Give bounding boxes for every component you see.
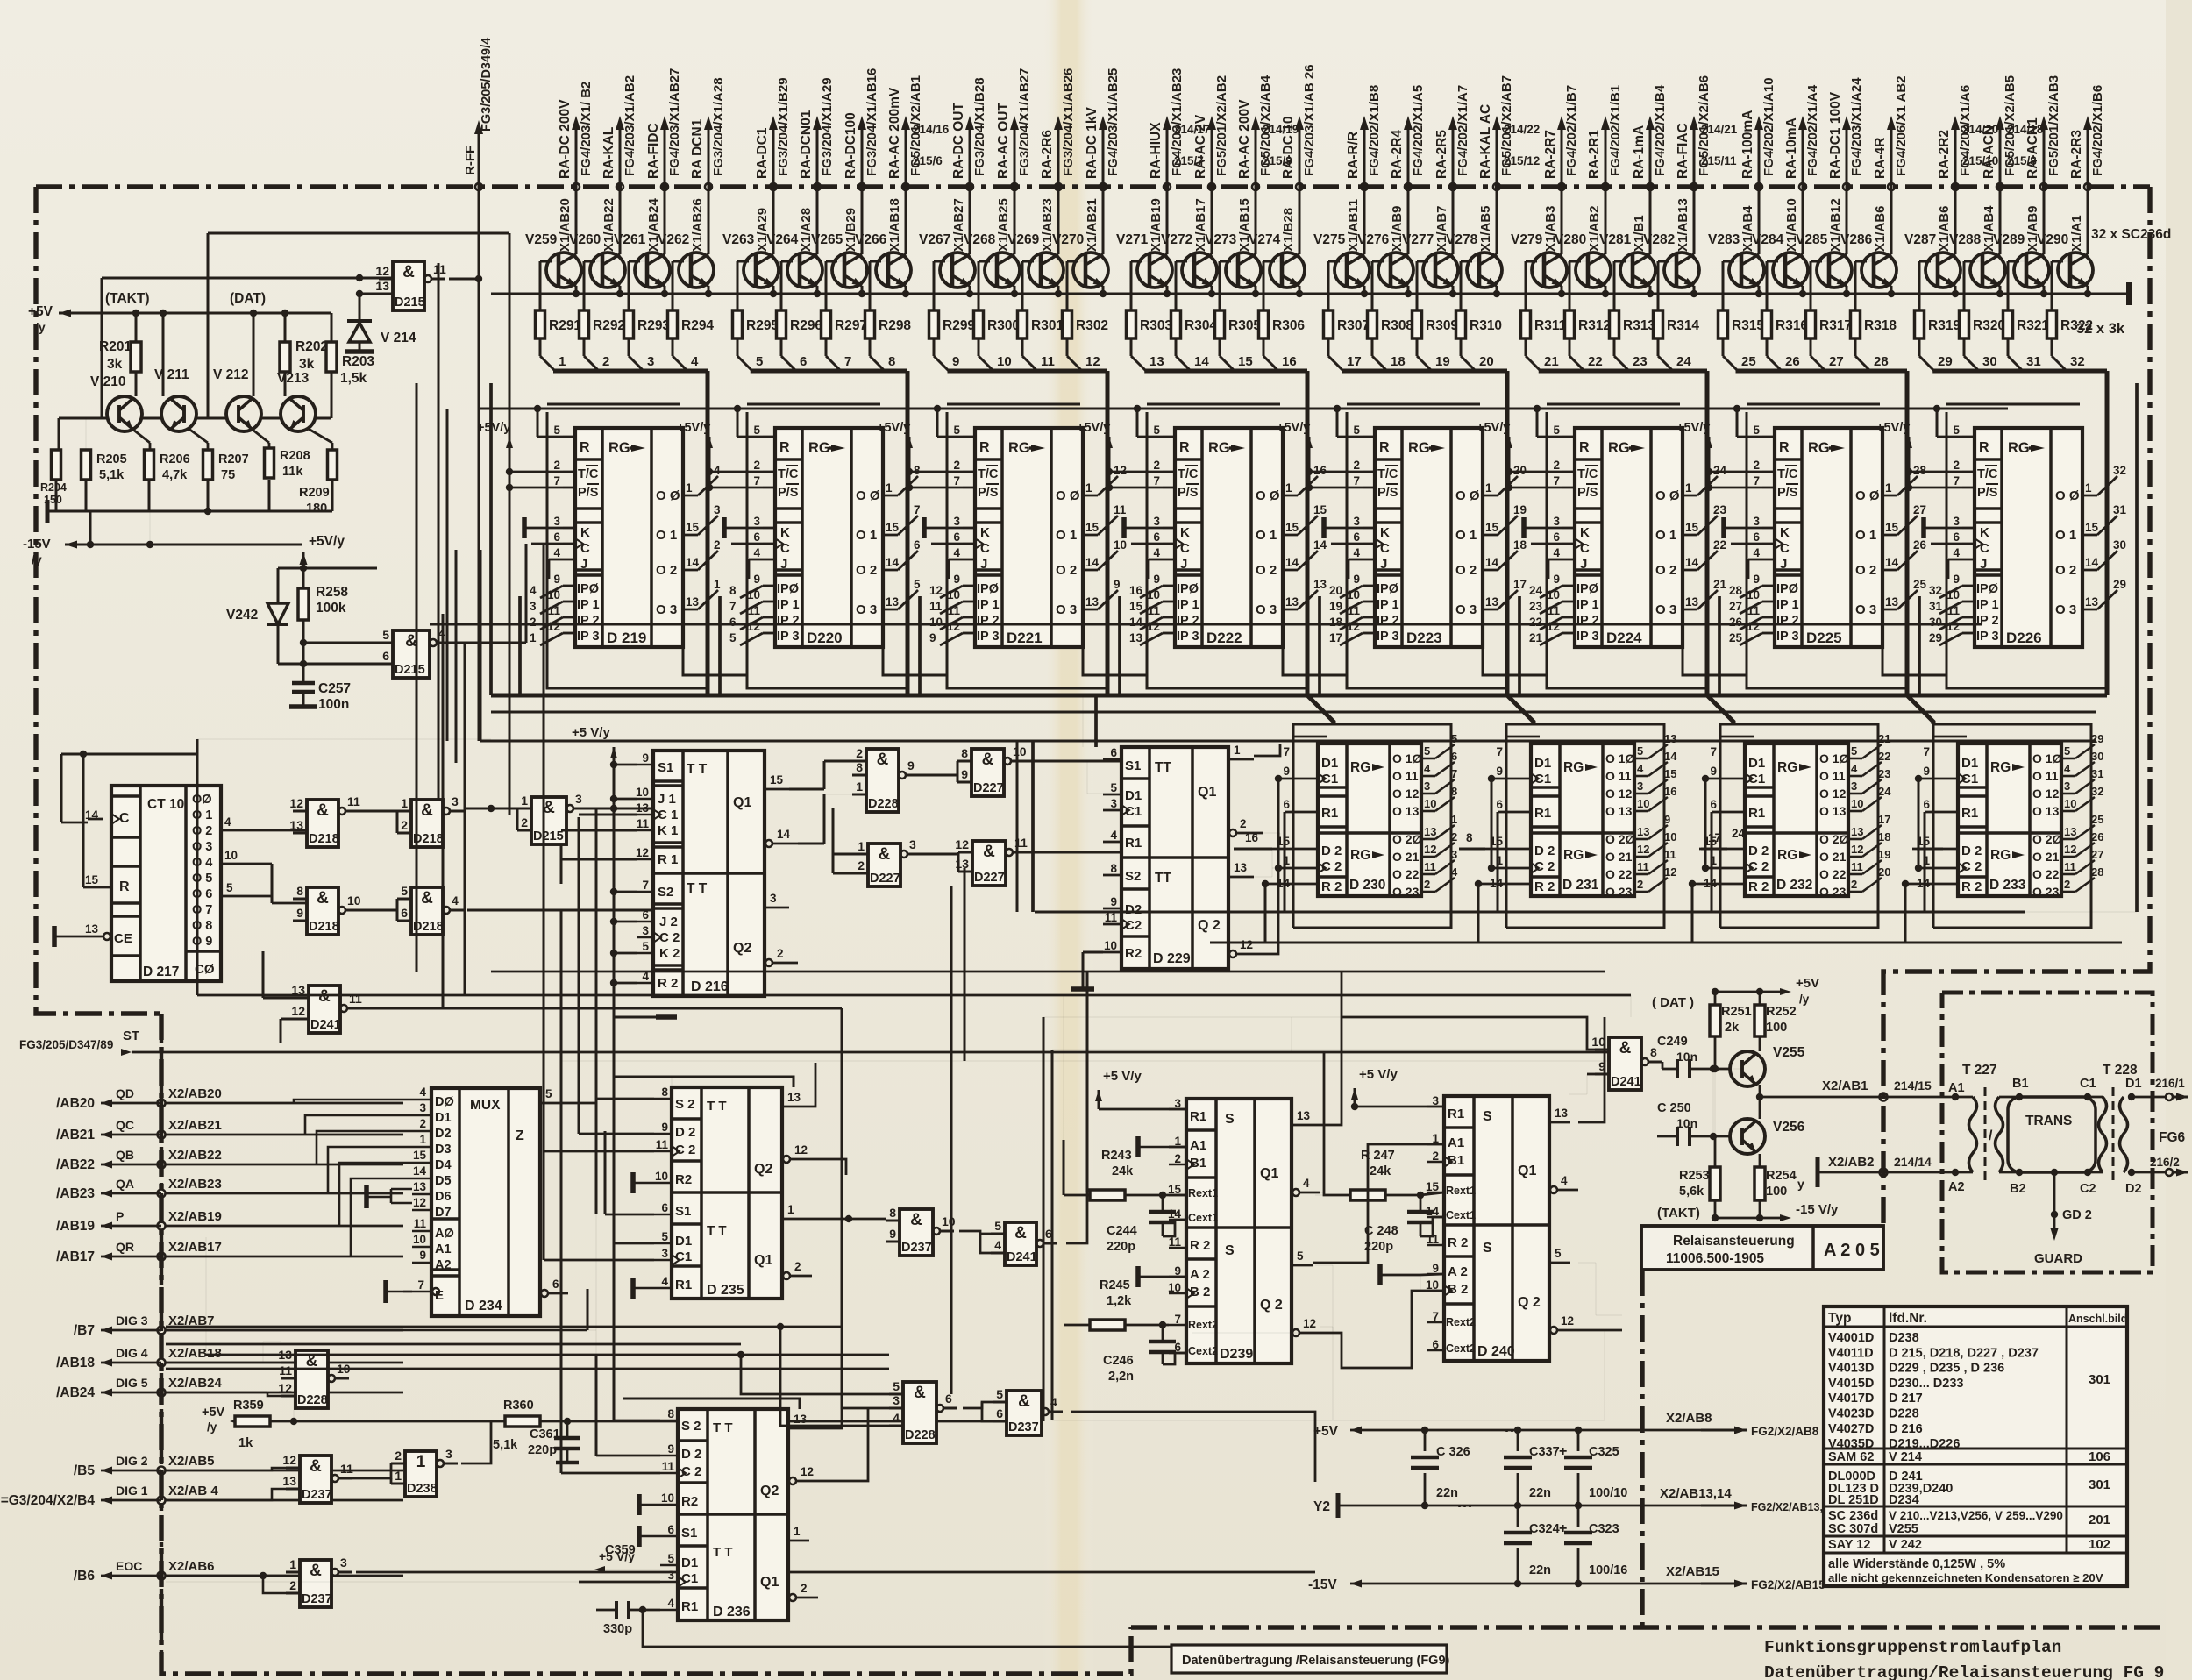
svg-text:5: 5 [1110,781,1117,794]
svg-text:13: 13 [1685,595,1699,609]
svg-text:13: 13 [1555,1107,1569,1120]
svg-text:O 13: O 13 [2032,804,2060,818]
svg-text:8: 8 [856,760,863,774]
svg-text:O 3: O 3 [1056,602,1077,617]
svg-text:4: 4 [224,815,231,829]
ground top-left cluster [46,500,50,523]
transistor V279 [1532,253,1567,288]
input pins D222 [1163,436,1175,438]
svg-text:O 12: O 12 [1605,787,1633,801]
svg-text:IP 2: IP 2 [1976,614,1999,628]
svg-text:Relaisansteuerung: Relaisansteuerung [1673,1234,1795,1249]
svg-text:O 7: O 7 [192,903,212,917]
svg-text:A1: A1 [435,1242,452,1256]
resistor R207 75 [203,450,213,480]
svg-text:C 2: C 2 [659,930,680,945]
resistor R204 150 [52,450,61,480]
wires into D228b [166,1329,281,1331]
svg-text:V267: V267 [919,232,950,247]
diode V242 [267,603,288,624]
svg-text:K 2: K 2 [659,946,680,961]
svg-text:12: 12 [282,1453,296,1467]
resistor R309 [1417,260,1435,262]
node X1 column 27 wire and labels [1846,127,1848,254]
svg-text:1: 1 [1685,481,1692,495]
svg-text:R 2: R 2 [1748,879,1769,894]
resistor R311 [1526,260,1544,262]
svg-text:X2/AB15: X2/AB15 [1666,1564,1719,1579]
svg-text:30: 30 [2091,750,2103,763]
svg-text:T/C: T/C [578,467,599,481]
svg-text:V 210...V213,V256, V 259...V29: V 210...V213,V256, V 259...V290 [1889,1509,2063,1522]
serial chain zigzags under blocks [683,647,747,675]
wire emitter to rail column 30 [1999,286,2002,294]
wires into D241c [1052,1049,1595,1050]
svg-text:···: ··· [1457,1498,1473,1515]
input pins D224 [1562,436,1575,438]
node X1 column 13 wire and labels [1166,127,1169,254]
svg-text:S: S [1225,1112,1235,1127]
capacitor C246 2,2n [1149,1340,1176,1344]
svg-text:3: 3 [1753,515,1760,528]
svg-text:S 2: S 2 [675,1097,695,1112]
svg-text:FG3/204/X1/A28: FG3/204/X1/A28 [711,77,726,176]
svg-text:RA-R/R: RA-R/R [1346,132,1361,179]
svg-text:V269: V269 [1007,232,1040,247]
svg-text:4: 4 [1353,546,1360,559]
svg-text:V 211: V 211 [154,367,189,382]
transistor V280 [1576,253,1611,288]
svg-text:5,6k: 5,6k [1679,1185,1704,1199]
svg-text:D219...D226: D219...D226 [1889,1437,1960,1451]
transistor V210 [107,396,142,431]
clock rail for shift registers [455,550,458,763]
transistor V270 [1073,253,1108,288]
svg-text:10: 10 [2064,797,2076,810]
svg-text:X2/AB23: X2/AB23 [168,1177,222,1192]
emitter rail top row [491,293,2129,295]
D235 Q1 wire to gates [803,1218,886,1221]
svg-text:RG: RG [1777,760,1797,775]
svg-text:O 21: O 21 [2032,850,2060,864]
svg-text:10: 10 [224,849,238,862]
register D232 [1745,744,1848,896]
svg-text:D218: D218 [309,832,339,846]
svg-text:R291: R291 [549,318,581,333]
svg-text:Q1: Q1 [1518,1164,1536,1178]
svg-text:9: 9 [1353,573,1360,586]
svg-text:1: 1 [858,839,865,853]
svg-text:13: 13 [1851,825,1863,838]
svg-text:1: 1 [1923,854,1930,867]
capacitor C323 100/16 electrolytic [1577,1506,1580,1527]
svg-text:214/14: 214/14 [1894,1155,1932,1169]
capacitor C361 220p [540,1420,614,1422]
svg-text:32 x SC236d: 32 x SC236d [2091,227,2171,242]
svg-text:9: 9 [1710,765,1717,778]
transistor V269 [1028,253,1064,288]
svg-text:10: 10 [1946,588,1960,602]
svg-text:R312: R312 [1578,318,1611,333]
svg-text:12: 12 [955,837,969,851]
svg-text:D227: D227 [973,781,1004,795]
svg-text:D 229: D 229 [1153,951,1191,966]
shift register D224 [1575,428,1683,647]
svg-text:R201: R201 [99,339,132,354]
rail crossing dots [1641,1429,1643,1431]
reset wire D221 [937,436,963,438]
svg-text:/y: /y [1799,993,1810,1006]
node X1 column 11 wire and labels [1057,127,1060,254]
svg-text:Z: Z [516,1128,524,1143]
svg-text:V263: V263 [722,232,755,247]
svg-text:1: 1 [559,354,566,369]
svg-text:R319: R319 [1928,318,1961,333]
svg-text:RA-2R4: RA-2R4 [1390,130,1405,179]
TRANS block [2008,1097,2096,1172]
clock wire D220 [731,543,763,545]
svg-text:RA-100mA: RA-100mA [1740,110,1755,179]
svg-text:9: 9 [642,751,649,765]
svg-text:D218: D218 [309,920,339,934]
svg-text:FG3/204/X1/AB26: FG3/204/X1/AB26 [1061,68,1076,176]
wire R359 junction right [294,1420,1043,1423]
svg-text:R301: R301 [1031,318,1064,333]
svg-text:12: 12 [794,1143,808,1157]
svg-text:30: 30 [1929,616,1942,629]
wire emitter to rail column 23 [1649,286,1652,294]
svg-text:CT 10: CT 10 [147,797,184,812]
transistor V267 [940,253,975,288]
svg-text:IP 2: IP 2 [977,614,1000,628]
svg-text:D225: D225 [1806,630,1842,646]
svg-text:C323: C323 [1589,1522,1619,1536]
D235 input wires [561,1099,654,1103]
pins D216 right [765,788,789,791]
mux output Z wire [560,1061,563,1103]
svg-text:4: 4 [1953,546,1960,559]
svg-text:10: 10 [1591,1035,1605,1049]
svg-text:1: 1 [787,1203,794,1216]
svg-text:R317: R317 [1819,318,1852,333]
svg-text:15: 15 [1485,521,1499,534]
wires D241b [263,997,295,1000]
wire from D227 outputs to D229 [1121,760,1123,762]
svg-text:21: 21 [1878,732,1890,745]
svg-text:R314: R314 [1667,318,1699,333]
svg-text:25: 25 [1913,578,1927,591]
svg-text:&: & [877,751,889,769]
resistor R206 4,7k [145,450,154,480]
svg-text:10: 10 [1637,797,1649,810]
svg-text:R2: R2 [675,1172,692,1187]
svg-text:IP 1: IP 1 [577,598,600,612]
svg-text:/AB23: /AB23 [56,1186,95,1201]
svg-text:1: 1 [1234,744,1241,757]
svg-text:D 2: D 2 [675,1125,695,1140]
svg-text:28: 28 [1729,584,1743,597]
svg-text:6: 6 [1153,530,1160,544]
svg-text:14: 14 [886,556,900,569]
svg-text:75: 75 [221,468,235,482]
svg-text:V4023D: V4023D [1828,1407,1874,1421]
svg-text:12: 12 [1547,620,1560,633]
svg-text:21: 21 [1713,578,1727,591]
svg-text:IP 1: IP 1 [1377,598,1399,612]
svg-text:4: 4 [667,1597,674,1610]
resistor R313 [1614,260,1633,262]
IP bundle drop D219 [518,596,522,695]
svg-text:IPØ: IPØ [1576,582,1598,596]
svg-text:10: 10 [929,616,943,629]
svg-text:5: 5 [1851,744,1857,758]
svg-text:15: 15 [1238,354,1253,369]
svg-text:R316: R316 [1776,318,1808,333]
resistor R316 [1767,260,1785,262]
svg-text:1: 1 [1496,854,1503,867]
page fold shading [1043,0,1094,1680]
output pins D230 [1421,758,1435,760]
wire DAT node down [253,313,255,396]
nand gate D215 c [531,797,566,844]
svg-text:9: 9 [1496,765,1503,778]
J wire D221 [949,559,963,561]
svg-text:13: 13 [1234,861,1248,874]
svg-text:4: 4 [1451,865,1458,879]
node X1 column 7 wire and labels [861,127,864,254]
svg-text:T/C: T/C [1178,467,1199,481]
svg-text:3: 3 [340,1555,347,1570]
svg-text:C244: C244 [1107,1224,1137,1238]
wire emitter to rail column 29 [1954,286,1957,294]
transistor V260 [590,253,625,288]
ground D229 [1071,986,1094,992]
svg-text:32: 32 [2070,354,2085,369]
capacitor C248 220p [1407,1210,1434,1214]
svg-text:2: 2 [856,746,863,760]
svg-text:O 2Ø: O 2Ø [1605,832,1635,846]
svg-text:4: 4 [661,1275,668,1288]
svg-text:9: 9 [753,573,760,586]
wire D216 Q1 to D228a [789,788,824,791]
grounds D235 [630,1172,636,1193]
svg-text:R296: R296 [790,318,822,333]
node X1 column 24 wire and labels [1693,127,1696,254]
svg-text:13: 13 [413,1180,427,1193]
ground at K input D224 [1521,517,1527,538]
shift register D223 [1375,428,1483,647]
net X2/AB7 [101,1327,112,1335]
svg-text:17: 17 [1513,578,1527,591]
svg-text:&: & [402,263,415,281]
svg-text:Q2: Q2 [733,941,751,956]
svg-text:R254: R254 [1766,1169,1797,1183]
svg-text:Cext2: Cext2 [1446,1342,1476,1355]
svg-text:8: 8 [888,354,895,369]
svg-text:S 2: S 2 [681,1419,701,1434]
svg-text:DIG 4: DIG 4 [116,1346,148,1360]
net X2/AB21 [101,1131,112,1139]
svg-text:RA-DC100: RA-DC100 [843,112,858,179]
resistor R317 [1811,260,1829,262]
svg-text:2: 2 [1753,459,1760,472]
svg-text:R 2: R 2 [1448,1235,1468,1250]
svg-text:A1: A1 [1948,1081,1965,1095]
svg-text:1: 1 [1710,854,1717,867]
svg-text:IP 3: IP 3 [1776,630,1799,644]
svg-text:8: 8 [1466,831,1473,844]
svg-text:D2: D2 [435,1127,452,1141]
svg-text:4: 4 [553,546,560,559]
svg-text:14: 14 [1313,538,1327,552]
net +5V/y output stage [1715,991,1780,993]
svg-text:V287: V287 [1904,232,1936,247]
svg-text:27: 27 [1829,354,1844,369]
svg-text:6: 6 [382,649,389,663]
transistor V281 [1620,253,1655,288]
svg-text:C1: C1 [2080,1077,2096,1091]
svg-text:EOC: EOC [116,1559,142,1573]
svg-text:RA-1mA: RA-1mA [1632,125,1647,179]
svg-text:D 2: D 2 [1321,844,1342,858]
svg-text:V 214: V 214 [381,331,416,345]
svg-text:RG: RG [1990,848,2011,863]
svg-text:R300: R300 [987,318,1020,333]
svg-text:O Ø: O Ø [2055,488,2080,503]
svg-text:QA: QA [116,1177,134,1191]
svg-text:4: 4 [953,546,960,559]
transistor V212 [226,396,261,431]
svg-text:R 2: R 2 [1190,1238,1210,1253]
svg-text:19: 19 [1513,503,1527,516]
svg-text:D 217: D 217 [143,965,179,979]
svg-text:C249: C249 [1657,1035,1688,1049]
svg-text:24: 24 [1732,827,1746,840]
svg-text:3: 3 [661,1247,668,1260]
svg-text:IP 1: IP 1 [777,598,800,612]
svg-text:11: 11 [637,817,650,830]
svg-text:330p: 330p [603,1622,632,1636]
svg-text:IP 1: IP 1 [977,598,1000,612]
svg-text:IP 1: IP 1 [1177,598,1199,612]
svg-text:2: 2 [530,616,537,629]
svg-text:FG4/202/X1/A5: FG4/202/X1/A5 [1411,85,1426,176]
svg-text:RA-2R6: RA-2R6 [1040,130,1055,179]
svg-text:7: 7 [1753,474,1760,488]
svg-text:RG: RG [1563,760,1584,775]
svg-text:RA-2R2: RA-2R2 [1937,130,1952,179]
svg-text:13: 13 [636,801,650,815]
svg-text:FG3/204/X1/A29: FG3/204/X1/A29 [820,77,835,176]
flip-flop D229 TT [1121,747,1228,969]
svg-text:C337: C337 [1529,1445,1560,1459]
svg-text:AØ: AØ [435,1227,454,1241]
svg-text:GUARD: GUARD [2034,1251,2082,1266]
svg-text:FG5/201/X2/AB2: FG5/201/X2/AB2 [1214,75,1229,176]
svg-text:3: 3 [1553,515,1560,528]
shift register D219 [575,428,683,647]
svg-text:O 1: O 1 [856,528,877,543]
svg-text:9: 9 [667,1442,674,1456]
svg-text:P/S: P/S [1178,486,1199,500]
pins D235 right [782,1106,803,1108]
svg-text:D222: D222 [1206,630,1242,646]
svg-text:X1/AB18: X1/AB18 [887,198,902,252]
resistor R360 5,1k [505,1416,540,1427]
box Datenuebertragung/Relaisansteuerung (FG9) [1171,1645,1447,1673]
svg-text:QR: QR [116,1240,134,1254]
wire D218d out right [467,909,653,912]
svg-text:D1: D1 [2125,1077,2142,1091]
svg-text:+5V: +5V [1313,1424,1339,1439]
svg-text:Q1: Q1 [760,1575,779,1590]
wire emitter to rail column 4 [708,286,710,294]
node X1 column 23 wire and labels [1649,127,1652,254]
node X1 column 8 wire and labels [905,127,907,254]
wire resistor R293 to pin number 3 [628,338,630,356]
svg-text:21: 21 [1544,354,1559,369]
register D230 [1318,744,1421,896]
transistor V211 [161,396,196,431]
node X1 column 9 wire and labels [969,127,971,254]
svg-text:10: 10 [1664,830,1676,844]
ground C257 [289,704,317,709]
svg-text:3: 3 [667,1569,674,1582]
svg-text:32 x 3k: 32 x 3k [2076,321,2125,337]
svg-text:3: 3 [953,515,960,528]
svg-text:O 1: O 1 [2055,528,2076,543]
wire emitter to rail column 27 [1846,286,1848,294]
svg-text:14: 14 [1885,556,1899,569]
ground at K input D223 [1321,517,1327,538]
svg-text:3: 3 [452,794,459,808]
svg-text:D230... D233: D230... D233 [1889,1377,1963,1391]
svg-text:5: 5 [226,881,233,894]
svg-text:Q2: Q2 [754,1162,772,1177]
svg-text:5: 5 [1753,424,1760,437]
envelope wire D236 [623,1399,800,1409]
svg-text:&: & [983,843,995,861]
svg-text:X2/AB 4: X2/AB 4 [168,1484,218,1498]
svg-text:O 3: O 3 [656,602,677,617]
bus drop group 7 [1905,371,1910,695]
svg-text:X2/AB22: X2/AB22 [168,1148,222,1163]
svg-text:V289: V289 [1993,232,2025,247]
svg-text:6: 6 [996,1406,1003,1420]
svg-text:O 8: O 8 [192,919,212,933]
svg-text:FG4/202/X1/A7: FG4/202/X1/A7 [1455,85,1470,176]
svg-text:&: & [310,1457,322,1476]
svg-text:4: 4 [452,893,459,908]
svg-text:D 235: D 235 [707,1283,744,1298]
svg-text:6: 6 [753,530,760,544]
gate D228 b lower-left [295,1350,328,1408]
transistor V271 [1137,253,1172,288]
bus drop group 3 [1106,371,1110,695]
svg-text:5: 5 [1953,424,1960,437]
transistor V284 [1773,253,1808,288]
svg-text:O 2: O 2 [1455,563,1477,578]
transistor V277 [1423,253,1458,288]
svg-text:K: K [1380,525,1390,540]
svg-text:3: 3 [1953,515,1960,528]
clock wire D226 [1931,543,1962,545]
svg-text:O 3: O 3 [192,840,212,854]
outer frame border (dash-dot) [36,184,2150,189]
svg-text:1,5k: 1,5k [340,371,367,386]
svg-text:9: 9 [1553,573,1560,586]
svg-text:20: 20 [1329,584,1342,597]
